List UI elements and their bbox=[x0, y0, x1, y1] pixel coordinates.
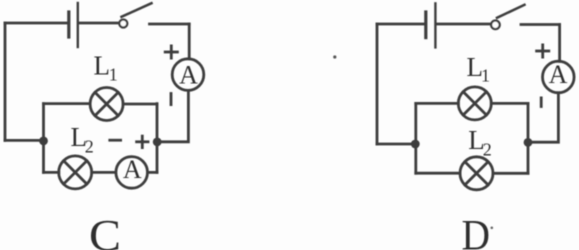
- label of ammeter A2 bbox=[110, 139, 121, 142]
+ label of ammeter A2 bbox=[137, 136, 148, 148]
+ label of ammeter A1 bbox=[165, 46, 177, 58]
label L2 (C) bbox=[71, 122, 94, 156]
svg-text:1: 1 bbox=[481, 65, 490, 85]
svg-text:2: 2 bbox=[483, 139, 492, 159]
wire: left to node A (C) bbox=[5, 139, 44, 142]
svg-text:C: C bbox=[89, 211, 121, 250]
svg-text:A: A bbox=[123, 155, 142, 184]
label D bbox=[462, 212, 491, 250]
wire: circuit D left outer vertical bbox=[376, 24, 379, 144]
wire: L1 branch left (C) bbox=[44, 102, 91, 105]
stray speck dot bbox=[333, 55, 336, 58]
wire: ammeter A1 down to node (C) bbox=[158, 90, 188, 141]
svg-text:D: D bbox=[462, 212, 491, 250]
svg-text:1: 1 bbox=[109, 65, 118, 85]
node D dot (D right junction) bbox=[524, 138, 533, 147]
wire: switch to top-right corner (C) bbox=[150, 23, 190, 26]
wire: circuit D top-left horizontal bbox=[377, 23, 425, 26]
wire: battery to switch (D) bbox=[437, 23, 490, 26]
wire: right vertical to ammeter (C) bbox=[188, 24, 191, 59]
wire: L2 branch right (D) bbox=[493, 172, 528, 175]
wire: battery to switch (C) bbox=[79, 22, 118, 25]
wire: switch to top-right corner (D) bbox=[521, 23, 560, 26]
wire: left to node C (D) bbox=[377, 143, 415, 146]
wire: right branch vertical (C) bbox=[156, 104, 159, 173]
lamp L3 (circuit D, L1) bbox=[458, 87, 491, 120]
svg-text:A: A bbox=[179, 60, 198, 89]
wire: L1 branch left (D) bbox=[416, 102, 459, 105]
svg-text:L: L bbox=[94, 51, 111, 81]
+ label of ammeter A3 bbox=[537, 45, 549, 57]
battery B2 (circuit D) bbox=[426, 3, 436, 47]
node A dot (C left junction) bbox=[39, 137, 48, 146]
lamp L2 (circuit C) bbox=[59, 156, 92, 189]
switch S1 (circuit C) bbox=[119, 3, 151, 27]
wire: L2 branch left (C) bbox=[44, 171, 59, 174]
- label of ammeter A1 bbox=[170, 94, 173, 105]
- label of ammeter A3 bbox=[540, 98, 543, 107]
label L1 (D) bbox=[467, 52, 491, 86]
lamp L4 (circuit D, L2) bbox=[460, 157, 493, 190]
wire: left branch vertical (C) bbox=[42, 104, 45, 173]
label C bbox=[89, 211, 121, 250]
wire: circuit C left outer vertical bbox=[4, 23, 7, 140]
label L1 (C) bbox=[94, 51, 118, 85]
wire: lamp L2 to ammeter A2 (C) bbox=[92, 171, 116, 174]
ammeter A2 (circuit C bottom) bbox=[116, 155, 148, 188]
wire: circuit C top-left horizontal bbox=[5, 22, 68, 25]
node B dot (C right junction) bbox=[153, 138, 162, 147]
wire: ammeter A2 to right branch (C) bbox=[148, 171, 157, 174]
svg-text:A: A bbox=[549, 60, 568, 89]
wire: right branch vertical (D) bbox=[527, 103, 530, 173]
svg-text:2: 2 bbox=[85, 137, 94, 157]
wire: L1 branch right (D) bbox=[491, 102, 528, 105]
wire: ammeter A3 down to node (D) bbox=[529, 93, 559, 142]
lamp L1 (circuit C) bbox=[90, 88, 123, 121]
wire: L2 branch left (D) bbox=[416, 172, 460, 175]
switch S2 (circuit D) bbox=[491, 5, 524, 29]
node C dot (D left junction) bbox=[411, 140, 420, 149]
ammeter A1 (circuit C right) bbox=[172, 59, 204, 91]
wire: right vertical to ammeter (D) bbox=[558, 25, 561, 62]
ammeter A3 (circuit D right) bbox=[543, 60, 575, 93]
stray speck right of D bbox=[491, 227, 494, 230]
wire: left branch vertical (D) bbox=[414, 103, 417, 173]
battery B1 (circuit C) bbox=[69, 3, 78, 47]
wire: L1 branch right (C) bbox=[123, 103, 157, 106]
label L2 (D) bbox=[468, 125, 492, 159]
